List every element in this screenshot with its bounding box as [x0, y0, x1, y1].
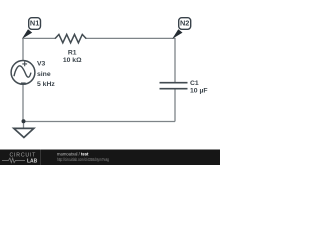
svg-text:C1: C1: [190, 80, 199, 87]
junction dot: [22, 119, 26, 123]
voltage source V3 circle: [11, 61, 35, 85]
svg-text:10 µF: 10 µF: [190, 88, 208, 95]
node N1 box: [29, 18, 41, 30]
wire right vertical lower (capacitor to bottom corner): [174, 89, 176, 122]
sine wave inside source: [14, 66, 31, 77]
minus sign: [21, 82, 26, 84]
node N2 box: [179, 18, 191, 30]
node N2 pointer tail: [172, 29, 182, 39]
resistor R1: [55, 34, 86, 42]
ground stub wire: [23, 121, 25, 128]
svg-text:5 kHz: 5 kHz: [37, 81, 55, 88]
svg-text:LAB: LAB: [27, 158, 38, 164]
svg-text:mamoatxal / test: mamoatxal / test: [57, 151, 89, 156]
wire top from resistor to node N2 corner: [86, 37, 175, 39]
svg-text:N2: N2: [180, 19, 189, 28]
node N1 pointer tail: [22, 29, 32, 39]
svg-text:10 kΩ: 10 kΩ: [63, 57, 82, 64]
footer bar: [0, 150, 220, 166]
wire top from node N1 corner to resistor: [23, 37, 55, 39]
wire right vertical upper (N2 corner to capacitor): [174, 38, 176, 83]
logo waveform squiggle: [2, 158, 25, 163]
wire bottom horizontal: [23, 121, 175, 123]
wire left vertical upper (N1 corner to source top): [22, 38, 24, 61]
svg-text:N1: N1: [30, 19, 39, 28]
capacitor C1 top plate: [160, 82, 188, 84]
svg-text:R1: R1: [68, 50, 77, 57]
svg-text:V3: V3: [37, 61, 46, 68]
svg-text:sine: sine: [37, 71, 51, 78]
capacitor C1 bottom plate: [160, 88, 188, 90]
footer divider line: [40, 150, 42, 166]
plus sign: [22, 62, 27, 67]
ground: [14, 128, 34, 137]
wire left vertical lower (source bottom to junction): [22, 84, 24, 121]
svg-text:http://circuitlab.com/c/4358d4: http://circuitlab.com/c/4358d4ym7wsg: [57, 157, 109, 162]
